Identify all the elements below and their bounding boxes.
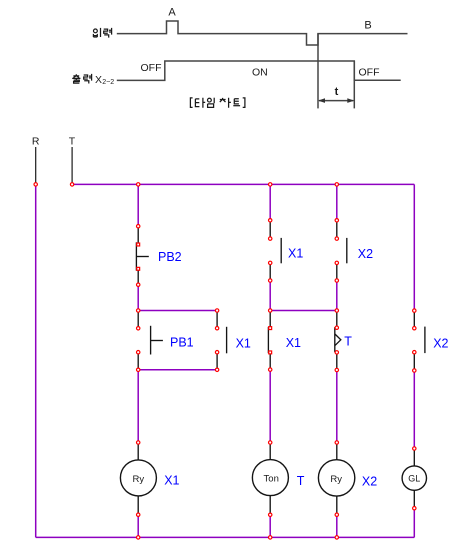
X2 c4 terminal top <box>335 237 338 240</box>
PB2 pins <box>137 226 139 285</box>
svg-text:X: X <box>95 74 102 86</box>
R lead wire <box>35 147 37 184</box>
svg-text:ON: ON <box>252 66 268 78</box>
node bottom rail c4 <box>335 536 338 539</box>
PB1 terminal bottom <box>137 351 140 354</box>
X2 c5 pin bottom <box>413 369 416 372</box>
col1 wire branch to coil <box>137 370 139 443</box>
X1 c2 blade (open) <box>226 327 228 354</box>
node branch top left <box>137 309 140 312</box>
left rail R vertical <box>35 184 37 537</box>
node c1 top rail <box>137 183 140 186</box>
col4 wire Ry to bottom rail <box>336 515 338 538</box>
node c4 top rail <box>335 183 338 186</box>
node T rail <box>70 183 73 186</box>
black symbol pin wires <box>136 220 425 515</box>
X1 c3 row2 terminal top square <box>269 327 272 330</box>
X1 c3 pin top <box>269 219 272 222</box>
coil GL pins <box>413 449 415 509</box>
node bottom rail c1 <box>137 536 140 539</box>
PB1 terminal top <box>137 327 140 330</box>
purple wires <box>36 184 415 537</box>
X2 c5 terminal top <box>413 327 416 330</box>
svg-text:Ry: Ry <box>132 474 144 485</box>
korean label 출력 X2~2 (output) <box>72 74 91 84</box>
branch bottom line <box>138 369 217 371</box>
branch top line <box>138 310 217 312</box>
arrowhead left <box>318 98 325 103</box>
node mid c5 <box>413 309 416 312</box>
svg-text:2~2: 2~2 <box>102 79 114 86</box>
PB2 terminal top square <box>137 243 140 246</box>
X1 c3 row1 pins <box>269 220 271 280</box>
X2 c5 pins <box>413 311 415 371</box>
node mid c3 <box>269 309 272 312</box>
PB2 terminal bottom square <box>137 267 140 270</box>
svg-text:OFF: OFF <box>359 67 380 79</box>
X1 c3 row1 blade (open) <box>280 238 282 263</box>
X1 c2 terminal bottom <box>215 351 218 354</box>
svg-text:Ton: Ton <box>264 473 279 484</box>
X2 c4 pin bottom <box>335 279 338 282</box>
X1 c3 row2 pin bottom <box>269 368 272 371</box>
coil Ry X1 circle <box>120 460 156 496</box>
col3 wire rail to X1 <box>269 184 271 220</box>
svg-text:X1: X1 <box>286 336 301 350</box>
T lead wire <box>71 147 73 184</box>
coil Ry X2 circle <box>318 460 354 496</box>
node branch bottom right <box>215 368 218 371</box>
svg-text:PB1: PB1 <box>170 336 194 350</box>
T contact blade (closed) <box>334 327 336 352</box>
node mid c4 <box>335 309 338 312</box>
svg-text:OFF: OFF <box>141 62 162 74</box>
red terminal rings and squares <box>34 183 416 539</box>
PB1 button tick <box>151 340 163 342</box>
PB2 blade (closed) <box>135 242 137 270</box>
coil1 pin top <box>137 441 140 444</box>
node R rail <box>34 183 37 186</box>
X1 c3 pin bottom <box>269 279 272 282</box>
col1 wire rail to PB2 <box>137 184 139 226</box>
PB2 pin top <box>137 225 140 228</box>
svg-text:t: t <box>335 86 339 98</box>
X1 c2 terminal top <box>215 327 218 330</box>
svg-text:T: T <box>297 474 305 488</box>
X1 c3 terminal top <box>269 237 272 240</box>
svg-text:Ry: Ry <box>330 474 342 485</box>
X2 c4 terminal bottom <box>335 261 338 264</box>
cross line col3-col4 <box>270 310 337 312</box>
input waveform <box>117 21 408 45</box>
col5 wire X2 contact to GL <box>413 371 415 449</box>
dimension arrow line t <box>319 100 353 102</box>
col4 wire X2 to junction <box>336 281 338 311</box>
korean label [타임 차트] (time chart) <box>190 98 245 108</box>
node bottom rail c3 <box>269 536 272 539</box>
coil2 pin top <box>269 441 272 444</box>
col3 wire contact to Ton coil <box>269 370 271 443</box>
svg-text:X1: X1 <box>288 247 303 261</box>
X1 c3 row2 pins <box>269 311 271 370</box>
col5 wire GL to bottom rail <box>413 508 415 537</box>
X2 c5 terminal bottom <box>413 351 416 354</box>
PB1 pins <box>137 311 139 370</box>
coil3 pin top <box>335 441 338 444</box>
blue labels <box>158 247 449 489</box>
coil2 pin bottom <box>269 513 272 516</box>
arrowhead right <box>347 98 354 103</box>
col4 wire rail to X2 <box>336 184 338 220</box>
coil1 pin bottom <box>137 513 140 516</box>
X1 c3 terminal bottom <box>269 261 272 264</box>
coil Ton pins <box>269 443 271 515</box>
node branch bottom left <box>137 368 140 371</box>
coil3 pin bottom <box>335 513 338 516</box>
svg-text:X1: X1 <box>164 474 179 488</box>
X1 c2 pins <box>216 311 218 370</box>
T terminal bottom <box>335 351 338 354</box>
svg-text:X2: X2 <box>433 337 448 351</box>
T contact pins <box>336 311 338 371</box>
coil Ry X1 pins <box>137 443 139 515</box>
svg-text:A: A <box>168 7 176 19</box>
extension line left <box>317 34 319 109</box>
lamp GL circle <box>402 466 426 490</box>
coil Ton circle <box>252 460 288 496</box>
col1 wire PB2 to branch <box>137 285 139 311</box>
top rail from T <box>72 183 414 185</box>
X2 c4 pin top <box>335 219 338 222</box>
col3 wire Ton to bottom rail <box>269 515 271 538</box>
T contact delay triangle <box>335 334 341 346</box>
bottom rail <box>36 536 415 538</box>
coil Ry X2 pins <box>336 443 338 515</box>
node c3 top rail <box>269 183 272 186</box>
node branch top right <box>215 309 218 312</box>
svg-text:X1: X1 <box>236 337 251 351</box>
T pin bottom <box>335 368 338 371</box>
GL pin bottom <box>413 507 416 510</box>
T terminal top <box>335 326 338 329</box>
svg-text:GL: GL <box>408 474 420 484</box>
col4 wire T contact to Ry coil <box>336 370 338 443</box>
svg-text:PB2: PB2 <box>158 250 182 264</box>
svg-text:R: R <box>32 136 40 148</box>
X2 c5 blade (open) <box>424 327 426 354</box>
X2 c4 row1 blade (open) <box>346 238 348 263</box>
col1 wire coil to bottom rail <box>137 515 139 538</box>
extension line right <box>353 61 355 108</box>
svg-text:T: T <box>344 335 352 349</box>
right column drop from top rail <box>413 184 415 310</box>
output waveform <box>117 61 401 80</box>
svg-text:X2: X2 <box>358 247 373 261</box>
X1 c3 row2 blade (closed) <box>267 327 269 353</box>
PB1 blade (open) <box>150 326 152 355</box>
X2 c4 row1 pins <box>336 220 338 280</box>
korean label 입력 (input) <box>93 28 111 38</box>
col3 wire X1 to junction <box>269 281 271 311</box>
X1 c3 row2 terminal bottom square <box>269 351 272 354</box>
svg-text:X2: X2 <box>362 475 377 489</box>
GL pin top <box>413 447 416 450</box>
svg-text:B: B <box>364 20 371 32</box>
PB2 pin bottom <box>137 283 140 286</box>
PB2 button tick <box>136 256 148 258</box>
svg-text:T: T <box>69 136 76 148</box>
